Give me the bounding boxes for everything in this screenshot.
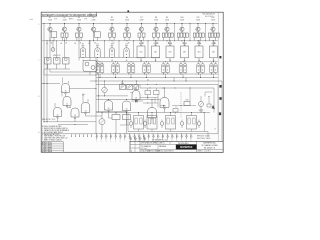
- svg-text:.XX ±.01: .XX ±.01: [141, 148, 147, 150]
- wire ff bottom: [128, 113, 208, 138]
- revision mark 4: [219, 112, 221, 115]
- svg-text:4N1: 4N1: [154, 52, 157, 54]
- svg-text:19: 19: [135, 97, 137, 99]
- svg-text:SEE NOTE 2 4 PL: SEE NOTE 2 4 PL: [42, 119, 56, 121]
- transistor Q2 cell: [61, 17, 68, 44]
- connector pin P22: [130, 137, 132, 141]
- svg-text:E ECO 8618: E ECO 8618: [42, 151, 52, 153]
- resistor R45: [112, 113, 120, 134]
- transistor Q13: [51, 40, 55, 51]
- svg-text:NOTES: UNLESS NOTED: NOTES: UNLESS NOTED: [42, 126, 62, 128]
- connector pin P8: [129, 133, 131, 143]
- svg-text:4: 4: [91, 14, 92, 16]
- arrow mark: [212, 105, 215, 109]
- transistor Q10 cell: [177, 17, 188, 44]
- wire bus 2: [96, 84, 218, 133]
- svg-text:18: 18: [164, 105, 166, 107]
- bus label: [147, 79, 149, 81]
- connector pin P7: [124, 133, 126, 143]
- transistor Q11 cell: [193, 17, 204, 44]
- revision mark 3: [219, 97, 221, 100]
- relay K3: [109, 43, 114, 58]
- wire mid link: [130, 93, 158, 108]
- connector pin P14: [157, 133, 159, 143]
- gate U15: [104, 101, 113, 112]
- wire bus 3: [140, 85, 214, 113]
- diode CR2: [160, 105, 165, 107]
- wire pair rail A: [96, 73, 218, 75]
- wire trunks mid: [89, 40, 149, 57]
- svg-text:4N1: 4N1: [169, 52, 172, 54]
- transistor Q40: [129, 120, 133, 129]
- svg-text:4N1: 4N1: [198, 52, 201, 54]
- label tilde: [214, 129, 216, 131]
- wire bottom rail: [42, 133, 218, 135]
- wire gate input feed: [70, 88, 97, 89]
- module U5: [195, 40, 203, 62]
- notes text: [42, 126, 70, 141]
- svg-text:15: 15: [108, 108, 110, 110]
- svg-text:DWG NO 100529 REV B: DWG NO 100529 REV B: [157, 151, 174, 153]
- transistor Q1 cell: [47, 17, 56, 44]
- resistor R32: [134, 81, 139, 90]
- svg-text:SUPERTEX: SUPERTEX: [180, 147, 193, 149]
- connector pin P3: [105, 133, 107, 143]
- border tick: [127, 10, 129, 12]
- svg-text:~4: ~4: [214, 129, 216, 131]
- transistor Q41: [143, 120, 147, 129]
- title note above: [152, 140, 167, 142]
- transistor pair Q21: [96, 61, 104, 78]
- connector pin P11: [143, 133, 145, 143]
- wire ff rail: [96, 112, 210, 113]
- svg-text:4N1: 4N1: [140, 52, 143, 54]
- connector pin P4: [110, 133, 112, 143]
- fold mark: [30, 18, 34, 20]
- wire trunk 96: [96, 58, 97, 134]
- wire gate out 15: [109, 111, 113, 118]
- wire trunks right: [174, 23, 206, 41]
- gate U10: [62, 78, 70, 95]
- wire trunk 44: [44, 23, 45, 122]
- transistor Q44: [197, 120, 201, 129]
- svg-text:4 PL: 4 PL: [54, 19, 57, 21]
- module U6: [210, 40, 218, 62]
- title text: [131, 143, 218, 153]
- relay K2: [95, 43, 100, 58]
- connector pin P23: [135, 137, 137, 141]
- connector pin P24: [139, 137, 141, 141]
- svg-text:REF 2: REF 2: [69, 19, 74, 21]
- transistor Q3 cell: [76, 17, 83, 44]
- gate U14: [81, 95, 90, 114]
- net labels: [46, 42, 90, 45]
- wire gate outputs: [58, 91, 103, 122]
- wire gate out 17: [151, 118, 153, 124]
- transistor Q5 cell: [109, 17, 116, 44]
- transistor Q12 cell: [208, 17, 219, 44]
- wire branch 121: [43, 121, 96, 122]
- relay K4: [124, 43, 129, 58]
- connector pin P16: [167, 133, 169, 143]
- resistor network RN1: [44, 37, 70, 69]
- dual transistor Q14: [79, 37, 103, 75]
- transistor Q45: [96, 112, 127, 134]
- flip-flop FF2: [147, 113, 157, 132]
- module U4: [181, 40, 189, 62]
- connector pin P2: [101, 133, 103, 143]
- svg-text:K4: K4: [125, 43, 127, 45]
- last-used note: [54, 19, 87, 21]
- resistor R46: [123, 113, 131, 134]
- svg-text:R40: R40: [186, 100, 189, 102]
- logo: [176, 142, 197, 150]
- connector pin P9: [134, 133, 136, 143]
- ground: [199, 110, 203, 112]
- wire right link: [172, 88, 196, 106]
- small parts cluster: [173, 107, 178, 114]
- svg-text:14: 14: [85, 110, 87, 112]
- connector pin P19: [181, 133, 183, 143]
- gate U11: [63, 94, 71, 107]
- svg-text:HV DRIVER PC 100: HV DRIVER PC 100: [152, 140, 167, 142]
- transistor Q30: [102, 81, 107, 96]
- connector pin P1: [96, 133, 98, 143]
- flip-flop FF1: [134, 113, 144, 132]
- wire branch 124: [58, 124, 88, 125]
- transistor Q7 cell: [138, 17, 145, 44]
- svg-text:4N1: 4N1: [212, 52, 215, 54]
- diode CR1: [131, 100, 143, 103]
- connector pin P10: [138, 133, 140, 143]
- pl note: [42, 119, 56, 121]
- flip-flop FF3: [166, 113, 176, 132]
- svg-text:44: 44: [147, 79, 149, 81]
- connector pin P18: [176, 133, 178, 143]
- connector pin P21: [190, 133, 192, 143]
- wire rail 2: [42, 40, 218, 42]
- revision mark 2: [219, 85, 221, 88]
- transistor pair Q27: [197, 61, 205, 78]
- gate labels: [82, 94, 85, 96]
- module U2: [152, 40, 160, 62]
- transistor Q8 cell: [153, 17, 160, 44]
- parts list note: [197, 134, 211, 139]
- wire pair rail B: [96, 77, 218, 79]
- wire VDD rail: [42, 23, 218, 25]
- wire gate row bus: [79, 57, 160, 59]
- wire branch 83: [41, 83, 60, 84]
- svg-text:K1: K1: [82, 43, 84, 45]
- transistor Q43: [180, 120, 184, 129]
- svg-text:4N1: 4N1: [183, 52, 186, 54]
- connector pin P12: [148, 133, 150, 143]
- title block: [130, 141, 223, 152]
- capacitor C4: [154, 88, 160, 95]
- wire bus 1: [90, 81, 222, 142]
- svg-text:1 OF 2: 1 OF 2: [206, 151, 211, 153]
- wire left feed B: [44, 69, 96, 75]
- gate U19: [132, 88, 140, 104]
- transistor Q32: [199, 96, 204, 110]
- transistor pair Q25: [162, 61, 170, 78]
- gate U13: [70, 106, 79, 118]
- relay K1: [80, 43, 85, 58]
- transistor pair Q26: [179, 61, 187, 78]
- svg-text:SUPERTEX INC: SUPERTEX INC: [203, 143, 216, 145]
- test point ticks: [71, 134, 92, 137]
- wire left feed A: [50, 69, 96, 72]
- transistor Q4 cell: [91, 17, 100, 44]
- connector pin P15: [162, 133, 164, 143]
- gate U17: [148, 100, 157, 120]
- svg-text:16: 16: [126, 108, 128, 110]
- gate U12: [54, 103, 62, 118]
- wire stub 174: [173, 78, 175, 82]
- gate U18: [160, 88, 169, 113]
- transistor pair Q28: [210, 61, 218, 78]
- wire mid bus 2: [96, 99, 160, 100]
- gate U16: [122, 101, 131, 112]
- svg-text:10: 10: [65, 90, 67, 92]
- resistor R40: [184, 100, 190, 106]
- resistor R30: [120, 81, 126, 90]
- transistor Q6 cell: [124, 17, 131, 44]
- wire right extras: [140, 96, 211, 107]
- transistor pair Q24: [143, 61, 151, 78]
- revision table: [41, 142, 63, 153]
- border frame: [41, 12, 223, 152]
- connector pin P25: [144, 137, 146, 141]
- svg-text:K3: K3: [111, 43, 113, 45]
- transistor pair Q22: [112, 61, 120, 78]
- connector pin P5: [115, 133, 117, 143]
- wire trunk 98: [98, 74, 100, 113]
- module U3: [166, 40, 174, 62]
- connector pin P17: [171, 133, 173, 143]
- transistor pair Q23: [127, 61, 135, 78]
- wire trunk 56: [55, 40, 58, 57]
- flip-flop FF4: [187, 113, 197, 132]
- svg-text:5. SEE SHEET 2 FOR PIN OUT: 5. SEE SHEET 2 FOR PIN OUT: [42, 136, 65, 138]
- transistor Q42: [160, 120, 164, 129]
- svg-text:SHEET: SHEET: [198, 151, 203, 153]
- wire stub 186: [185, 78, 187, 82]
- resistor R31: [127, 85, 133, 90]
- svg-text:11: 11: [66, 103, 68, 105]
- svg-text:13: 13: [74, 115, 76, 117]
- svg-text:RN1 4.7K: RN1 4.7K: [53, 55, 61, 57]
- connector pin P6: [120, 133, 122, 143]
- wire mid bus: [96, 95, 128, 96]
- svg-text:SK 100529 B: SK 100529 B: [204, 148, 216, 150]
- connector pin P13: [152, 133, 154, 143]
- relay pin labels: [82, 59, 214, 62]
- svg-text:1. RESISTORS IN OHMS 1/4W 5%: 1. RESISTORS IN OHMS 1/4W 5%: [42, 128, 68, 130]
- wire gate out 16: [120, 111, 129, 125]
- wire dashed sense: [180, 92, 182, 118]
- svg-text:12: 12: [57, 114, 59, 116]
- svg-text:TYP: TYP: [84, 19, 87, 21]
- svg-text:K2: K2: [96, 43, 98, 45]
- wire trunk 47: [47, 40, 48, 122]
- module U1: [137, 40, 145, 62]
- transistor Q9 cell: [162, 17, 173, 44]
- revision strip: [41, 12, 97, 17]
- zone letters: [38, 24, 40, 134]
- sheet paper: [41, 12, 223, 152]
- svg-text:U9 4: U9 4: [82, 94, 85, 96]
- capacitor C3: [145, 88, 151, 95]
- revision mark 1: [219, 56, 221, 58]
- wire corner 205: [205, 92, 212, 97]
- wire pair link top: [96, 61, 218, 63]
- document number: [203, 14, 216, 18]
- connector pin P20: [185, 133, 187, 143]
